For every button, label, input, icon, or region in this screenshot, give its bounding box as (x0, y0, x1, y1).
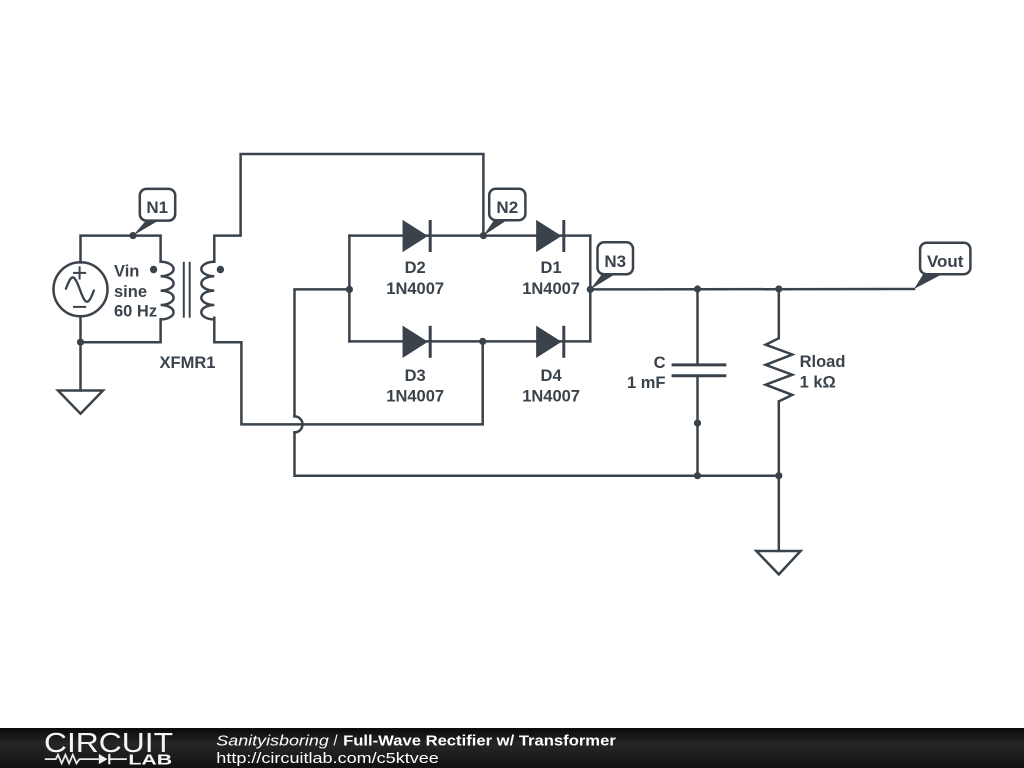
diode D3 (403, 326, 430, 358)
wire transformer secondary top to bridge node N2 (214, 154, 483, 262)
svg-text:60 Hz: 60 Hz (114, 303, 157, 321)
svg-text:D1: D1 (541, 259, 562, 277)
wire right ground stem (778, 476, 781, 551)
node N3 flag (590, 242, 633, 289)
junction capacitor top tee (694, 285, 701, 292)
junction bottom rail at capacitor (694, 472, 701, 479)
core bar right (189, 262, 191, 318)
svg-text:sine: sine (114, 283, 147, 301)
wire resistor bottom lead (778, 401, 781, 475)
transformer primary phase dot (150, 266, 157, 273)
secondary coil (201, 262, 214, 320)
wire capacitor top lead (696, 289, 699, 364)
CircuitLab logo diode triangle (99, 754, 108, 764)
node N1 flag (133, 189, 175, 236)
diode D2 (403, 220, 430, 252)
ground (right, at load) (756, 551, 800, 574)
svg-text:1N4007: 1N4007 (386, 280, 444, 298)
svg-text:Full-Wave Rectifier w/ Transfo: Full-Wave Rectifier w/ Transformer (343, 733, 616, 749)
diode D4 (537, 326, 564, 358)
junction bridge left mid (346, 286, 353, 293)
svg-text:N1: N1 (146, 198, 168, 217)
junction at N1 flag attach (129, 232, 136, 239)
svg-text:Vout: Vout (927, 252, 964, 271)
wire bridge top branch (349, 234, 590, 237)
voltage source Vin (sine, 60 Hz) (54, 262, 108, 316)
wire transformer secondary bottom to bridge bottom-mid junction (214, 318, 482, 425)
node Vout flag (914, 243, 970, 289)
node N2 flag (483, 189, 525, 236)
svg-text:1N4007: 1N4007 (386, 387, 444, 405)
resistor Rload (766, 338, 793, 401)
svg-text:1N4007: 1N4007 (522, 280, 580, 298)
junction node N2 (480, 232, 487, 239)
transformer secondary phase dot (217, 266, 224, 273)
wire source bottom to transformer primary bottom (81, 316, 161, 342)
CircuitLab logo diode cathode bar (108, 754, 110, 764)
wire below hop down to bottom rail and east along bottom rail (295, 432, 779, 475)
wire left-mid junction west then down to hop (295, 289, 350, 416)
svg-text:Rload: Rload (800, 353, 846, 371)
svg-text:C: C (654, 354, 666, 372)
wire bridge right vertical (589, 236, 592, 342)
svg-text:D2: D2 (405, 259, 426, 277)
svg-text:XFMR1: XFMR1 (160, 354, 216, 372)
transformer XFMR1 (161, 262, 215, 320)
svg-text:Vin: Vin (114, 263, 139, 281)
capacitor C (672, 365, 727, 376)
ground (left, at source) (58, 391, 103, 414)
diode D1 (537, 220, 564, 252)
svg-text:1 kΩ: 1 kΩ (800, 374, 836, 392)
wire node N3 rail east to Vout (590, 288, 914, 291)
core bar left (183, 262, 185, 318)
junction node N3 (587, 286, 594, 293)
svg-text:LAB: LAB (128, 752, 172, 768)
junction resistor top tee (775, 285, 782, 292)
svg-text:1N4007: 1N4007 (522, 387, 580, 405)
svg-text:Sanityisboring: Sanityisboring (216, 733, 328, 749)
svg-text:N2: N2 (496, 198, 518, 217)
svg-text:D4: D4 (541, 367, 563, 385)
wire bridge bottom branch (349, 340, 590, 343)
wire node N1 net: source top to transformer primary top (81, 236, 161, 263)
svg-text:1 mF: 1 mF (627, 374, 666, 392)
junction bottom rail at resistor (775, 472, 782, 479)
wire hop over crossing wire (295, 416, 303, 432)
svg-text:N3: N3 (604, 252, 626, 271)
wire left ground stem (79, 342, 82, 390)
CircuitLab logo wire with resistor zigzag (45, 755, 127, 764)
junction bridge bottom mid (479, 338, 486, 345)
svg-text:http://circuitlab.com/c5ktvee: http://circuitlab.com/c5ktvee (216, 750, 438, 767)
wire capacitor bottom lead (696, 376, 699, 476)
primary coil (161, 262, 174, 320)
wire bridge left vertical (348, 236, 351, 342)
junction at source bottom / ground tee (77, 339, 84, 346)
svg-text:D3: D3 (405, 367, 426, 385)
wire resistor top lead (778, 289, 781, 338)
junction capacitor bottom terminal (694, 420, 701, 427)
